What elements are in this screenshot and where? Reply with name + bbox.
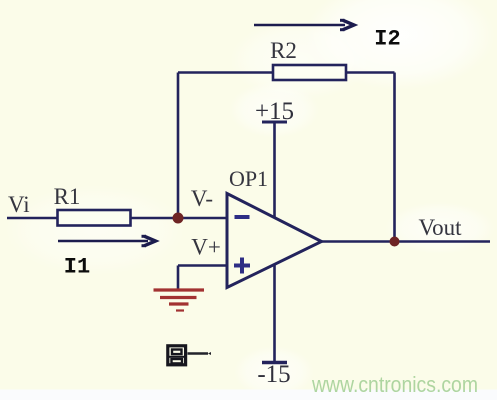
node B junction dot (output): [390, 237, 400, 247]
op-amp minus pin symbol: [235, 215, 250, 219]
ground: [154, 290, 205, 311]
wire feedback top right: [346, 71, 395, 74]
label figure caption 圖一: [168, 346, 211, 365]
op-amp U1 triangle: [227, 194, 322, 288]
svg-text:OP1: OP1: [229, 166, 268, 191]
arrow I2: [254, 20, 354, 29]
wire -15 stem: [273, 265, 276, 363]
wire output: [322, 240, 491, 243]
resistor R2: [273, 65, 346, 80]
svg-text:-15: -15: [257, 361, 290, 388]
svg-text:Vi: Vi: [8, 192, 30, 217]
wire V+ input: [178, 264, 227, 267]
svg-text:V+: V+: [191, 235, 221, 260]
wire feedback top left: [178, 71, 273, 74]
svg-text:www.cntronics.com: www.cntronics.com: [311, 372, 478, 397]
svg-text:I1: I1: [64, 255, 90, 280]
-15 supply bar: [262, 361, 287, 365]
svg-text:+15: +15: [255, 98, 294, 125]
resistor R1: [58, 210, 131, 226]
svg-text:R1: R1: [54, 184, 81, 209]
wire +15 stem: [273, 122, 276, 218]
node A junction dot (inverting input): [173, 213, 184, 224]
svg-text:V-: V-: [191, 186, 213, 211]
+15 supply bar: [262, 121, 287, 124]
svg-text:R2: R2: [270, 38, 297, 63]
wire ground stem: [177, 266, 180, 291]
wire feedback left vertical: [177, 73, 180, 219]
svg-text:I2: I2: [374, 27, 400, 52]
wire input Vi to op-amp inverting input: [7, 217, 227, 220]
svg-text:Vout: Vout: [418, 215, 462, 240]
arrow I1: [58, 236, 156, 245]
wire feedback right vertical: [393, 73, 396, 242]
op-amp plus pin symbol: [234, 258, 250, 274]
